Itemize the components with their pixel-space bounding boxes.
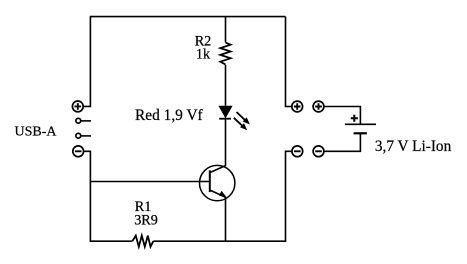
connector pin + battery side [313,101,324,112]
connector pin + right inner [292,101,303,112]
connector pin + USB VBUS [72,101,83,112]
connector pin - battery side [313,146,324,157]
wire battery - lead [325,134,361,151]
wire bottom rail right [153,240,286,242]
svg-text:1k: 1k [196,47,211,63]
svg-text:Red 1,9 Vf: Red 1,9 Vf [135,107,204,124]
svg-text:3R9: 3R9 [134,212,158,228]
resistor R2 [220,43,230,65]
wire base from USB - branch to transistor [90,181,209,183]
wire USB - down to bottom rail [84,151,90,241]
svg-text:3,7 V Li-Ion: 3,7 V Li-Ion [375,138,452,155]
wire right rail bottom [286,151,292,241]
transistor Q1 [200,165,235,200]
wire top rail [90,16,286,18]
wire USB + to top rail [84,17,90,106]
wire R2 to LED [225,65,227,106]
wire LED to transistor collector [225,119,227,167]
connector pin D- [76,133,91,138]
connector pin - USB GND [73,146,84,157]
connector pin - right inner [292,146,303,157]
wire middle vertical top rail to R2 [225,17,227,43]
wire right rail top [286,17,292,107]
LED D1 [218,106,250,131]
svg-text:USB-A: USB-A [15,125,58,140]
wire transistor emitter to bottom rail [225,197,227,241]
wire bottom rail left [90,240,133,242]
connector pin D+ [76,118,91,123]
battery BT1 [345,115,376,134]
wire battery + lead [325,107,361,124]
resistor R1 [132,236,153,247]
